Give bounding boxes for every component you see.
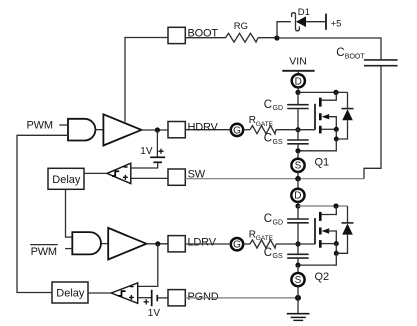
capacitor CGD (Q2) [264,206,309,244]
svg-text:G: G [233,240,241,251]
wire buffer out to HDRV [141,129,168,131]
wire AND1 out [95,129,103,131]
wire Q2 drain line [298,205,348,207]
node Q2 source [295,263,300,268]
wire node up to D1 [277,22,291,38]
svg-text:D: D [295,76,302,87]
capacitor CGS (Q1) [264,130,309,151]
svg-text:BOOT: BOOT [345,54,366,61]
wire LDRV node down to comp2 - input [138,244,158,287]
wire SW net [185,178,364,180]
terminal HDRV [168,122,185,138]
svg-text:Q1: Q1 [315,157,330,169]
wire AND2 out [101,243,108,245]
wire HDRV to G [185,129,231,131]
wire CBOOT down and jog to SW net [364,66,381,179]
buffer (top driver) [103,114,141,145]
svg-text:RG: RG [234,21,248,32]
terminal BOOT [168,27,185,43]
node Q1 drain [295,90,300,95]
svg-text:PWM: PWM [27,120,53,132]
capacitor CGD (Q1) [264,92,309,129]
wire G to RGATE [243,129,250,131]
svg-text:GATE: GATE [256,235,274,242]
node Q2 drain [295,203,300,208]
node Q1 gate [295,127,300,132]
comparator (bottom) [111,283,138,303]
terminal D (Q2 drain) [291,189,304,202]
wire PWMbar stub [65,248,72,250]
svg-text:S: S [295,275,302,286]
terminal S (Q2 source) [297,265,299,273]
capacitor CGS (Q2) [264,244,309,265]
battery 1V (bottom) [138,290,168,319]
diode D1 (schottky) [292,7,325,31]
wire PWM stub [59,124,68,126]
wire delay1 to AND2 [66,189,73,237]
wire D2 circle to drain node [297,202,299,206]
svg-text:S: S [295,161,302,172]
svg-text:Delay: Delay [52,174,81,186]
terminal D (Q1 drain) [292,74,305,87]
buffer (bottom driver) [108,228,146,260]
wire buffer2 out to LDRV [146,243,168,245]
wire node to CBOOT [277,38,381,60]
svg-text:GATE: GATE [256,121,274,128]
node SW / Q2 drain [295,176,301,182]
terminal G circle (Q1) [231,124,243,136]
svg-text:GD: GD [273,105,284,112]
wire D circle to drain node [297,87,299,92]
terminal SW [168,169,185,185]
node Q1 drain/diode [333,90,338,95]
svg-text:D1: D1 [298,7,310,18]
wire comp1 + input to SW [131,177,168,179]
wire gate Q2 [276,243,315,245]
capacitor CBOOT [336,47,397,65]
wire PGND net [185,297,298,299]
wire G2 to RGATE2 [243,243,250,245]
svg-text:PWM: PWM [31,246,57,258]
resistor RG [226,33,259,42]
ground [287,298,310,321]
svg-text:GS: GS [273,139,283,146]
svg-text:D: D [294,191,301,202]
mosfet Q2 [298,206,339,283]
svg-text:C: C [336,47,344,59]
body diode Q1 [336,92,353,139]
svg-text:C: C [264,213,272,225]
svg-text:LDRV: LDRV [188,236,217,248]
VIN supply [282,56,314,75]
comparator (top) [107,163,131,183]
terminal LDRV [168,236,185,252]
terminal S (Q1 source) [297,151,299,159]
svg-text:C: C [264,99,272,111]
svg-text:GS: GS [273,253,283,260]
svg-text:G: G [233,125,241,136]
node LDRV drive [155,241,160,246]
svg-text:C: C [264,133,272,145]
delay block (top) [48,168,84,189]
node PGND [295,295,301,301]
svg-text:1V: 1V [140,146,153,157]
svg-text:C: C [264,247,272,259]
svg-text:Q2: Q2 [315,271,330,283]
node Q2 drain/diode [333,203,338,208]
wire BOOT to buffer top [125,38,168,122]
mosfet Q1 [298,92,339,168]
wire comp2 out [88,292,111,294]
terminal PGND [168,290,185,306]
wire BOOT to RG [185,37,225,39]
feedback wire delay2 to AND1 [17,135,68,292]
svg-text:GD: GD [273,220,284,227]
AND gate (bottom) [72,232,101,254]
AND gate (top) [68,119,95,141]
wire RG to node [258,37,277,39]
svg-text:PGND: PGND [188,291,219,303]
wire comp1 out [84,172,107,174]
node Q2 gate [295,241,300,246]
delay block (bottom) [52,282,88,303]
resistor RGATE (Q2) [250,240,276,248]
wire SW to Q2 drain [297,179,299,189]
node HDRV drive [155,127,160,132]
battery 1V (top) [131,130,165,168]
svg-text:Delay: Delay [56,288,85,300]
svg-text:HDRV: HDRV [188,121,219,133]
node (BOOT net junction) [274,35,279,40]
wire LDRV to G2 [185,243,231,245]
svg-text:VIN: VIN [289,56,307,68]
wire Q1 drain line [298,91,348,93]
+5 supply terminal [325,14,327,30]
node Q1 source [295,148,300,153]
wire gate [276,129,315,131]
body diode Q2 [336,206,353,253]
terminal G circle (Q2) [231,238,243,250]
svg-text:+5: +5 [331,19,342,30]
resistor RGATE (Q1) [250,126,276,134]
svg-text:1V: 1V [148,308,161,319]
